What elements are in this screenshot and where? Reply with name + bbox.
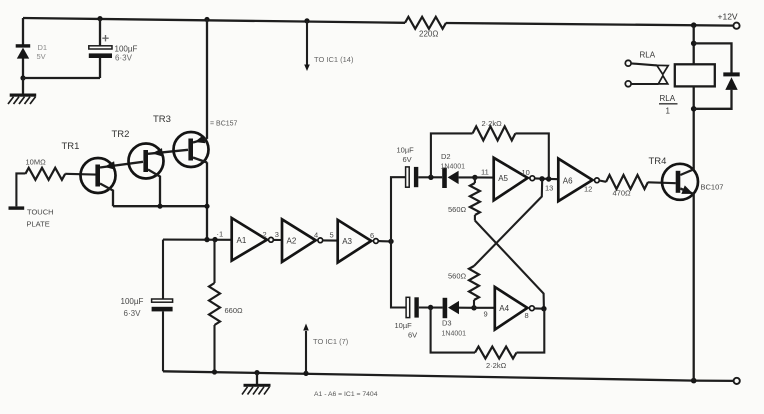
wire A6 out to 470R bbox=[599, 181, 606, 182]
inverter A6 bbox=[558, 159, 599, 202]
wire zener anode to 100uF negative bbox=[23, 77, 100, 79]
svg-text:A1: A1 bbox=[237, 236, 247, 245]
svg-text:BC107: BC107 bbox=[701, 183, 724, 192]
wire flyback diode branch bbox=[694, 43, 732, 108]
resistor 220R bbox=[405, 17, 446, 39]
wire top +12V rail left section bbox=[23, 18, 405, 23]
svg-text:6·3V: 6·3V bbox=[115, 54, 133, 63]
svg-text:9: 9 bbox=[484, 309, 488, 318]
svg-text:2: 2 bbox=[263, 230, 267, 239]
pin 1 label bbox=[217, 230, 224, 239]
svg-text:A1 - A6 = IC1 = 7404: A1 - A6 = IC1 = 7404 bbox=[314, 391, 378, 398]
svg-text:A4: A4 bbox=[499, 304, 509, 313]
pin 8 label bbox=[525, 311, 529, 320]
touch plate terminal bbox=[9, 206, 54, 228]
node TR2 collector junction bbox=[157, 204, 162, 209]
zener diode D1 5V bbox=[16, 43, 47, 61]
svg-text:13: 13 bbox=[545, 184, 553, 193]
node D2 / 560R / A5 input bbox=[472, 175, 477, 180]
svg-text:6V: 6V bbox=[408, 330, 417, 339]
node junction top rail / relay branch bbox=[691, 22, 697, 28]
wire contact upper bbox=[631, 63, 657, 65]
wire / arrow TO IC1 pin 14 bbox=[304, 21, 354, 71]
svg-text:4: 4 bbox=[314, 231, 318, 240]
wire TR3 collector down to node 1 bbox=[206, 162, 208, 239]
ground bottom-middle bbox=[242, 373, 271, 395]
svg-text:6·3V: 6·3V bbox=[124, 309, 142, 318]
terminal +12V bbox=[718, 12, 740, 29]
svg-text:1: 1 bbox=[666, 107, 671, 116]
pin 6 label bbox=[370, 231, 374, 240]
flyback diode bbox=[723, 72, 739, 90]
contact triangle lower bbox=[658, 76, 668, 84]
wire 470R to TR4 base bbox=[648, 181, 676, 184]
relay coil RLA bbox=[675, 64, 715, 86]
wire node 1 horizontal bbox=[163, 239, 232, 241]
wire A1 out to A2 in bbox=[273, 239, 282, 241]
wire to A5 input bbox=[475, 176, 494, 178]
wire A4 out bbox=[534, 307, 544, 309]
node A3 output bbox=[388, 239, 393, 244]
capacitor 100uF 6.3V mid-left bbox=[121, 297, 173, 318]
svg-text:10µF: 10µF bbox=[397, 146, 415, 155]
wire A2 out to A3 in bbox=[323, 239, 338, 241]
wire +12V rail to relay bbox=[693, 25, 695, 64]
node top cap / 2.2k / D2 bbox=[428, 175, 433, 180]
label RLA top bbox=[640, 51, 656, 60]
pin 10 label bbox=[522, 168, 530, 177]
svg-text:10MΩ: 10MΩ bbox=[26, 158, 47, 167]
svg-text:D3: D3 bbox=[442, 318, 452, 327]
pin 5 label bbox=[330, 231, 334, 240]
pin 11 label bbox=[481, 167, 489, 176]
svg-text:2·2kΩ: 2·2kΩ bbox=[482, 119, 503, 128]
svg-text:8: 8 bbox=[525, 311, 529, 320]
wire vertical A3 output to both capacitors bbox=[391, 177, 406, 307]
capacitor 100uF 6.3V top-left bbox=[89, 19, 138, 78]
pin 3 label bbox=[275, 230, 279, 239]
svg-text:A6: A6 bbox=[563, 176, 573, 185]
node bottom cap / 2.2k / D3 bbox=[428, 305, 433, 310]
svg-text:6V: 6V bbox=[403, 155, 412, 164]
capacitor 10uF 6V bottom bbox=[395, 297, 419, 339]
svg-text:5V: 5V bbox=[37, 52, 46, 61]
transistor TR4 BC107 bbox=[649, 156, 724, 200]
svg-text:RLA: RLA bbox=[640, 51, 656, 60]
wire cross-coupling A (560R top to A4 output) bbox=[475, 221, 544, 309]
node A4 output bbox=[541, 306, 546, 311]
capacitor 10uF 6V top bbox=[397, 146, 419, 188]
diode D3 1N4001 bbox=[442, 298, 475, 338]
svg-text:D1: D1 bbox=[38, 43, 48, 52]
svg-text:3: 3 bbox=[275, 230, 279, 239]
svg-text:11: 11 bbox=[481, 167, 489, 176]
svg-text:+12V: +12V bbox=[718, 12, 738, 22]
node relay bottom / diode branch bbox=[691, 106, 697, 112]
svg-text:TR3: TR3 bbox=[153, 114, 171, 125]
wire zener D1 branch bbox=[22, 18, 24, 78]
svg-text:A3: A3 bbox=[342, 237, 352, 246]
svg-text:12: 12 bbox=[584, 184, 592, 193]
svg-text:TR2: TR2 bbox=[112, 129, 130, 140]
node 660R / rail bbox=[212, 369, 217, 374]
wire A5 out to A6 in bbox=[535, 177, 559, 180]
node TR4 emitter / rail bbox=[691, 378, 697, 384]
contact triangle upper bbox=[657, 65, 668, 74]
resistor 10M bbox=[25, 158, 65, 180]
terminal bottom right bbox=[734, 378, 740, 384]
note A1-A6 = IC1 = 7404 bbox=[314, 391, 378, 398]
pin 2 label bbox=[263, 230, 267, 239]
svg-text:1N4001: 1N4001 bbox=[441, 163, 466, 170]
node D3 / 560R / A4 input bbox=[471, 305, 476, 310]
wire to A4 input bbox=[474, 307, 495, 309]
label RLA/1 bbox=[659, 94, 678, 116]
svg-text:TR1: TR1 bbox=[62, 141, 80, 152]
inverter A3 bbox=[338, 220, 379, 263]
svg-text:10: 10 bbox=[522, 168, 530, 177]
svg-text:·1: ·1 bbox=[217, 230, 224, 239]
ground top-left bbox=[8, 78, 36, 104]
svg-text:560Ω: 560Ω bbox=[448, 205, 467, 214]
node junction top rail / 100uF bbox=[97, 16, 102, 21]
transistor TR3 bbox=[153, 114, 238, 167]
wire contact lower bbox=[631, 83, 658, 85]
wire TR3 emitter to +12V rail bbox=[206, 20, 208, 139]
resistor 560R bottom bbox=[448, 266, 479, 308]
wire relay bottom stem bbox=[693, 86, 695, 108]
node relay top / diode branch bbox=[691, 41, 697, 47]
resistor 470R bbox=[606, 175, 648, 197]
diode D2 1N4001 bbox=[441, 152, 475, 188]
relay contact terminal upper bbox=[625, 60, 631, 66]
svg-text:100µF: 100µF bbox=[121, 297, 144, 306]
svg-text:560Ω: 560Ω bbox=[448, 272, 467, 281]
svg-text:PLATE: PLATE bbox=[27, 220, 50, 229]
node ground stem / rail bbox=[254, 370, 259, 375]
svg-text:RLA: RLA bbox=[660, 94, 676, 103]
wire TR1/TR2 collectors common bbox=[113, 205, 207, 207]
node A5 out a bbox=[539, 176, 544, 181]
svg-text:5: 5 bbox=[330, 231, 334, 240]
svg-text:220Ω: 220Ω bbox=[419, 30, 438, 39]
node junction top rail / TO IC1 pin 14 bbox=[304, 18, 309, 23]
wire 10M to TR1 base bbox=[65, 173, 95, 176]
svg-text:100µF: 100µF bbox=[115, 44, 138, 53]
node zener anode / cap negative bbox=[20, 75, 25, 80]
transistor TR1 bbox=[62, 141, 144, 206]
resistor 2.2k bottom feedback bbox=[431, 308, 545, 371]
svg-text:A2: A2 bbox=[287, 236, 297, 245]
svg-text:TO IC1 (7): TO IC1 (7) bbox=[313, 337, 349, 346]
wire cap to D2 node bbox=[418, 176, 442, 178]
resistor 560R top bbox=[448, 177, 480, 220]
wire TR4 collector up to relay bbox=[693, 109, 695, 170]
svg-text:660Ω: 660Ω bbox=[225, 306, 244, 315]
svg-text:D2: D2 bbox=[441, 152, 451, 161]
node collector rail meets TR3 collector line bbox=[204, 204, 209, 209]
svg-text:470Ω: 470Ω bbox=[613, 188, 632, 197]
wire 100uF branch vertical bbox=[162, 240, 164, 372]
wire TR4 emitter down to rail bbox=[693, 194, 695, 381]
node 1 junction a bbox=[204, 237, 209, 242]
svg-text:2·2kΩ: 2·2kΩ bbox=[486, 361, 507, 370]
wire cap to D3 node bbox=[419, 306, 443, 308]
node A5 out b bbox=[546, 176, 551, 181]
wire A3 out to caps bbox=[378, 240, 391, 242]
svg-text:= BC157: = BC157 bbox=[210, 121, 238, 128]
pin 9 label bbox=[484, 309, 488, 318]
inverter A1 bbox=[232, 218, 274, 261]
pin 13 label bbox=[545, 184, 553, 193]
resistor 2.2k top feedback bbox=[431, 119, 549, 179]
svg-text:1N4001: 1N4001 bbox=[442, 330, 467, 337]
svg-text:TR4: TR4 bbox=[649, 156, 667, 167]
svg-text:TOUCH: TOUCH bbox=[27, 208, 54, 217]
resistor 660R bbox=[209, 240, 243, 372]
inverter A2 bbox=[282, 219, 323, 262]
node junction top rail / TR3 emitter bbox=[204, 17, 209, 22]
svg-text:A5: A5 bbox=[498, 174, 508, 183]
node TO IC1 7 / rail bbox=[303, 371, 308, 376]
node 1 junction b bbox=[212, 237, 217, 242]
wire / arrow TO IC1 pin 7 bbox=[303, 324, 349, 374]
wire touch plate to resistor bbox=[16, 173, 25, 206]
pin 4 label bbox=[314, 231, 318, 240]
wire top +12V rail right section bbox=[446, 23, 733, 26]
inverter A4 bbox=[495, 287, 535, 330]
transistor TR2 bbox=[112, 129, 189, 206]
svg-text:TO IC1 (14): TO IC1 (14) bbox=[314, 55, 354, 64]
svg-text:6: 6 bbox=[370, 231, 374, 240]
pin 12 label bbox=[584, 184, 592, 193]
wire cross-coupling B (560R bottom to A5 output) bbox=[474, 180, 542, 267]
relay contact terminal lower bbox=[625, 81, 631, 87]
inverter A5 bbox=[494, 158, 535, 201]
wire bottom ground rail bbox=[163, 371, 734, 381]
svg-text:10µF: 10µF bbox=[395, 321, 413, 330]
